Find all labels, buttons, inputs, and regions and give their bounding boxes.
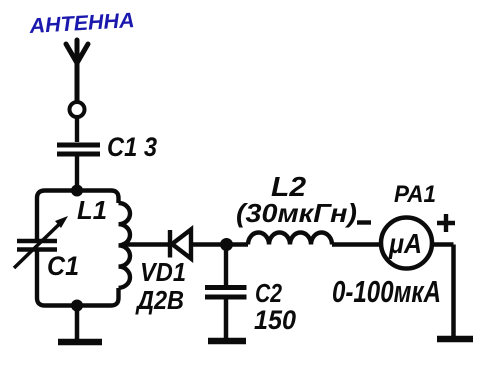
connector X1 xyxy=(70,102,85,117)
wire node C down to C2 xyxy=(224,245,228,286)
wire C1 to tank node A xyxy=(75,157,79,191)
plus terminal mark xyxy=(437,214,455,232)
svg-text:С1: С1 xyxy=(47,251,79,281)
ground (tank) xyxy=(58,339,102,346)
wire C2 to ground xyxy=(224,298,229,338)
svg-text:С1 3: С1 3 xyxy=(107,132,157,162)
wire diode to node C xyxy=(193,242,222,246)
variable capacitor C1 arrow xyxy=(14,222,62,269)
minus terminal mark xyxy=(357,220,371,224)
variable capacitor C1 plates xyxy=(17,241,57,250)
svg-text:VD1: VD1 xyxy=(140,257,186,287)
svg-text:μА: μА xyxy=(388,228,422,259)
svg-text:L1: L1 xyxy=(77,195,107,225)
inductor L2 xyxy=(248,233,332,245)
svg-text:Д2В: Д2В xyxy=(135,285,184,315)
wire antenna to C1 xyxy=(75,118,79,143)
svg-text:150: 150 xyxy=(254,305,296,335)
node B (tank bottom junction) xyxy=(71,300,83,312)
wire L2 to meter xyxy=(332,242,381,246)
wire meter to right drop xyxy=(432,242,454,246)
node A (tank top junction) xyxy=(71,185,83,197)
wire right vertical to ground xyxy=(451,245,456,337)
antenna W1 xyxy=(66,40,88,100)
wire node C to L2 xyxy=(231,242,248,246)
svg-text:PA1: PA1 xyxy=(394,181,436,208)
wire L1 tap to diode xyxy=(122,242,168,246)
ground (meter return) xyxy=(437,336,473,343)
svg-text:С2: С2 xyxy=(255,278,282,308)
ground (C2) xyxy=(208,338,246,345)
svg-text:АНТЕННА: АНТЕННА xyxy=(28,9,135,38)
svg-text:0-100мкА: 0-100мкА xyxy=(332,274,441,309)
capacitor C2 xyxy=(205,288,247,298)
meter PA1 xyxy=(381,218,432,269)
wire tank to ground xyxy=(75,306,80,340)
inductor L1 (right side of tank) xyxy=(119,203,131,288)
capacitor C1 (coupling, 3 pF) xyxy=(57,145,100,154)
svg-text:(30мкГн): (30мкГн) xyxy=(236,198,357,228)
wire tank loop left lower and bottom xyxy=(37,250,119,306)
diode VD1 xyxy=(170,230,191,259)
node C (detector output junction) xyxy=(220,238,233,251)
wire tank loop top xyxy=(37,191,119,242)
